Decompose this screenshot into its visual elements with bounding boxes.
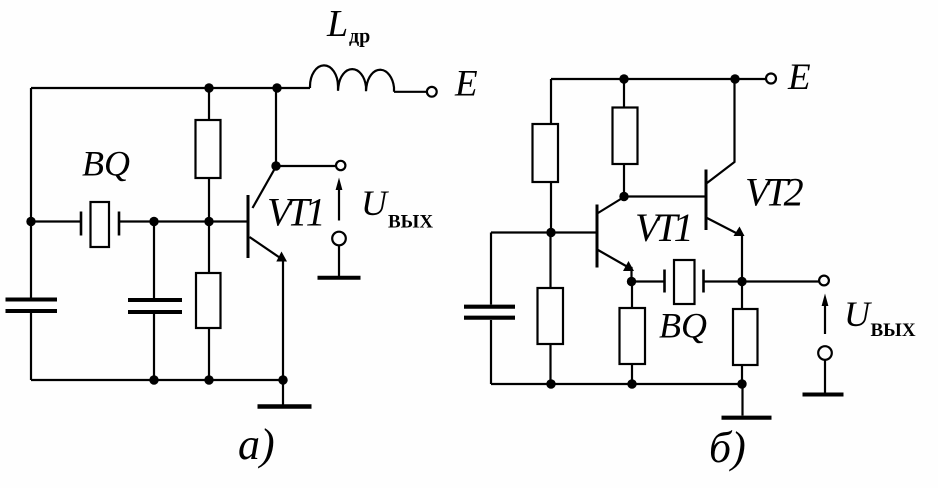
wire top rail a <box>31 87 310 89</box>
svg-text:др: др <box>349 26 370 48</box>
capacitor C2 <box>128 300 182 312</box>
crystal BQ body a <box>91 202 110 247</box>
svg-text:а): а) <box>238 420 275 469</box>
wire collector to rail a <box>275 88 277 166</box>
wire bottom rail a <box>31 379 283 381</box>
wire inductor to E terminal a <box>394 91 427 93</box>
wire R6 bottom lead <box>741 365 743 384</box>
wire node C2 to base node <box>154 220 209 222</box>
svg-text:ВЫХ: ВЫХ <box>871 320 916 341</box>
wire crystal to output node b <box>704 280 743 282</box>
crystal BQ plates a <box>81 212 119 236</box>
resistor R7 <box>538 288 564 344</box>
terminal circle lower b <box>818 346 832 360</box>
svg-text:U: U <box>844 294 872 334</box>
wire R7 bottom lead <box>549 344 551 384</box>
arrow Uout b <box>824 304 826 334</box>
terminal E circle a <box>427 87 437 97</box>
transistor VT1 base bar (b) <box>596 205 599 268</box>
svg-text:BQ: BQ <box>659 306 707 346</box>
svg-text:L: L <box>326 3 348 45</box>
junction dots a <box>26 83 287 384</box>
wire bottom rail b <box>491 383 743 385</box>
wire C2 bottom lead <box>153 314 155 380</box>
ground bar under output a <box>318 276 361 280</box>
arrow Uout a <box>338 188 340 221</box>
wire R7 top lead <box>549 233 551 289</box>
wire crystal left lead a <box>31 220 81 222</box>
wire base rail b <box>491 231 597 233</box>
svg-text:ВЫХ: ВЫХ <box>388 212 433 233</box>
wire terminal to ground a <box>338 246 340 277</box>
ground bar main a <box>258 404 312 409</box>
junction dots b <box>546 74 746 388</box>
wire C2 top lead <box>153 222 155 299</box>
transistor VT2 base bar <box>705 170 708 231</box>
transistor VT1 collector (b) <box>598 197 624 213</box>
transistor VT1 emitter arrow (a) <box>276 252 287 262</box>
wire ground stem a <box>282 380 284 405</box>
crystal BQ body b <box>674 260 695 304</box>
terminal E circle b <box>766 74 776 84</box>
svg-text:VT2: VT2 <box>745 170 804 215</box>
wire base node to VT1 base <box>209 220 248 222</box>
wire VT1b emitter to crystal <box>632 280 665 282</box>
transistor VT2 emitter <box>707 218 742 282</box>
terminal output circle a <box>336 161 345 170</box>
wire R2 bottom lead <box>208 328 210 380</box>
svg-text:E: E <box>787 57 811 98</box>
svg-text:б): б) <box>709 423 746 472</box>
wire R2 top lead <box>208 222 210 274</box>
terminal output circle b <box>819 276 829 286</box>
svg-text:VT1: VT1 <box>267 190 322 235</box>
wire R1 bottom lead <box>208 178 210 222</box>
svg-text:VT1: VT1 <box>635 205 690 250</box>
svg-text:BQ: BQ <box>82 144 130 184</box>
resistor R3 <box>533 124 559 182</box>
wire left vertical upper a <box>30 88 32 298</box>
resistor R2 <box>196 273 221 328</box>
inductor L1 <box>310 65 394 91</box>
wire R6 top lead <box>741 282 743 310</box>
transistor VT1 collector (a) <box>253 167 277 209</box>
transistor VT2 emitter arrow <box>734 227 745 237</box>
capacitor C3 <box>464 307 515 318</box>
transistor VT1 base bar (a) <box>247 195 250 258</box>
wire R4 bottom lead <box>623 164 625 197</box>
svg-text:U: U <box>361 183 389 223</box>
wire R3 top lead <box>550 79 552 124</box>
wire crystal right lead a <box>119 220 154 222</box>
terminal circle lower a <box>332 232 346 246</box>
capacitor C1 <box>6 300 58 312</box>
wire R5 bottom lead <box>631 364 633 384</box>
wire ground stem b <box>741 384 743 416</box>
resistor R4 <box>613 108 638 165</box>
transistor VT1 emitter (b) <box>598 250 632 282</box>
svg-text:E: E <box>454 64 478 105</box>
wire R3 bottom lead <box>550 182 552 233</box>
wire R5 top lead <box>631 282 633 309</box>
wire collector to output terminal a <box>276 165 336 167</box>
wire R4 top lead <box>623 79 625 108</box>
wire terminal to ground b <box>824 360 826 393</box>
wire R1 top lead <box>208 88 210 120</box>
resistor R6 <box>733 309 758 365</box>
wire left vertical lower a <box>30 313 32 380</box>
transistor VT1 emitter arrow (b) <box>623 261 634 271</box>
ground bar under output b <box>803 393 844 397</box>
transistor VT2 collector <box>707 79 735 183</box>
wire C3 top lead <box>490 233 492 305</box>
wire VT1 emitter to rail a <box>282 259 284 380</box>
wire VT1 collector node to VT2 base <box>624 195 706 197</box>
resistor R5 <box>620 308 646 364</box>
crystal BQ plates b <box>665 270 704 293</box>
wire C3 bottom lead <box>490 320 492 384</box>
wire output node to terminal b <box>742 280 819 282</box>
transistor VT1 emitter (a) <box>250 237 282 259</box>
resistor R1 <box>196 120 221 178</box>
wire top rail b <box>551 78 766 80</box>
ground bar main b <box>722 416 772 420</box>
